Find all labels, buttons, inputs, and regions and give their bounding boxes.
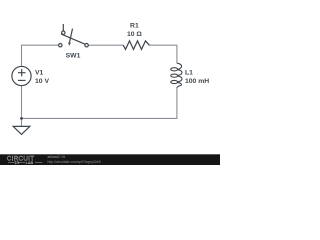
resistor R1 (123, 41, 149, 50)
label L1 value (185, 70, 209, 85)
svg-text:LAB: LAB (26, 161, 34, 165)
svg-text:R1: R1 (130, 22, 139, 29)
label V1 value (35, 69, 49, 85)
ground (13, 126, 30, 134)
label R1 value (127, 22, 142, 38)
svg-text:100 mH: 100 mH (185, 78, 209, 85)
wire from V1 bottom to junction (21, 86, 23, 119)
switch SW1 arrow head (68, 42, 71, 46)
svg-text:L1: L1 (185, 70, 193, 77)
node junction dot (20, 117, 23, 120)
footer text line 1 username (48, 155, 65, 159)
footer CircuitLab logo CIRCUIT (7, 155, 35, 162)
wire from switch right terminal to resistor (88, 44, 123, 46)
wire from resistor to top-right corner down to inductor (149, 45, 177, 63)
svg-text:ankars2 / lit: ankars2 / lit (48, 155, 65, 159)
wire top-left from V1 to switch left terminal (22, 45, 59, 66)
label SW1 (66, 52, 81, 59)
switch SW1 (59, 24, 89, 47)
svg-text:V1: V1 (35, 69, 44, 76)
svg-text:10 V: 10 V (35, 78, 49, 85)
svg-text:10 Ω: 10 Ω (127, 31, 142, 38)
inductor L1 (171, 63, 182, 88)
svg-text:SW1: SW1 (66, 52, 81, 59)
footer bar (0, 154, 220, 165)
voltage source V1 (12, 66, 31, 85)
wire from inductor bottom down and left along bottom to junction (22, 88, 177, 119)
svg-text:http://circuitlab.com/cp97ixgm: http://circuitlab.com/cp97ixgmj42e8 (48, 160, 101, 164)
wire stub junction to ground (21, 118, 23, 126)
footer CircuitLab logo LAB with diode wire (8, 161, 42, 165)
footer text line 2 url (48, 160, 101, 164)
